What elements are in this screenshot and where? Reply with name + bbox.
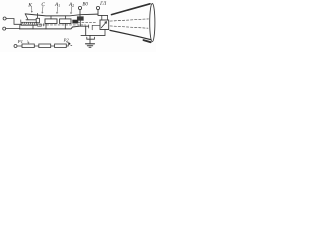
horn mouth ellipse <box>150 4 155 42</box>
terminal input 2 <box>3 27 6 30</box>
horn upper edge <box>112 4 151 15</box>
terminal input 1 <box>3 17 6 20</box>
ground bar 3 <box>89 46 91 48</box>
horn inner dashed upper <box>110 19 149 21</box>
wire C2 side tick <box>42 24 44 27</box>
driver unit box <box>100 20 109 30</box>
svg-text:В0: В0 <box>82 2 88 7</box>
coil tap wire <box>26 19 36 21</box>
label K leader <box>31 7 32 13</box>
label A2 leader <box>71 7 72 14</box>
wire driver lead 1 <box>101 15 103 20</box>
capacitor/detector box C <box>36 18 39 22</box>
wire bottom lead <box>17 45 22 47</box>
horn inner dashed lower <box>110 26 148 28</box>
svg-text:С: С <box>41 2 45 8</box>
label A1 leader <box>57 7 58 14</box>
horn lower edge thick tip <box>144 40 151 42</box>
wire A1 top drop <box>50 16 52 19</box>
wire bar down <box>85 26 87 35</box>
wire input1 to coil <box>6 19 21 25</box>
wire driver lead 2 <box>107 15 109 20</box>
node bar <box>79 25 89 27</box>
capacitor C2 small box <box>38 24 42 26</box>
horn lower edge <box>110 30 151 39</box>
wire GL stem <box>98 10 108 16</box>
node dot <box>69 43 71 45</box>
label P2 arrow <box>66 42 69 44</box>
amplifier box A2 <box>60 19 71 24</box>
wire riser coil bottom <box>19 25 21 29</box>
stub mark <box>71 44 72 46</box>
blocking capacitor dark block <box>73 20 78 23</box>
ground stem <box>89 35 91 43</box>
resistor R3 <box>55 44 67 48</box>
wire driver bottom to bus <box>104 30 106 36</box>
resistor R2 <box>39 44 51 48</box>
svg-text:А2: А2 <box>68 2 74 8</box>
dashed mechanical link line <box>20 24 86 26</box>
dashed link upper segment <box>78 21 96 23</box>
bottom bus wire <box>20 26 79 29</box>
top bus wire <box>25 14 97 16</box>
amplifier box A1 <box>45 19 57 24</box>
wire R3 stub <box>66 44 68 46</box>
wire stub down <box>88 25 90 28</box>
wire R1-R2 <box>34 45 39 47</box>
svg-text:Р1: Р1 <box>17 39 23 44</box>
driver adjustment arrow <box>101 22 106 28</box>
wire A2 top drop <box>65 16 67 19</box>
capacitor block under B0 <box>77 17 83 21</box>
wire B0 stem <box>79 10 81 17</box>
wire R2-R3 <box>51 45 55 47</box>
ground bus wire <box>81 34 105 36</box>
wire riser A1 bottom <box>45 24 47 29</box>
switch arm K <box>25 14 28 20</box>
terminal GL <box>96 6 99 9</box>
terminal bottom <box>14 45 17 48</box>
wire input2 to bottom bus <box>6 28 20 30</box>
wire riser A2 bottom <box>64 24 66 29</box>
coil hatch strokes <box>22 22 36 25</box>
ground bar 1 <box>86 43 95 45</box>
svg-text:К: К <box>27 3 32 9</box>
svg-text:А1: А1 <box>54 2 60 8</box>
label C leader <box>42 6 43 13</box>
wire to driver left <box>92 25 100 30</box>
ground staple <box>87 37 95 39</box>
wire C top lead <box>36 13 38 18</box>
wire blob down <box>79 20 81 26</box>
svg-text:ГЛ: ГЛ <box>99 2 107 7</box>
coil tap drop <box>20 20 22 23</box>
ground bar 2 <box>87 45 92 47</box>
coil L hatched box <box>21 22 37 25</box>
label P1 arrow <box>28 41 29 44</box>
terminal B0 <box>78 6 81 9</box>
wire riser coil tap2 <box>32 26 34 29</box>
resistor R1 <box>22 44 34 48</box>
svg-text:Р2: Р2 <box>63 38 70 43</box>
